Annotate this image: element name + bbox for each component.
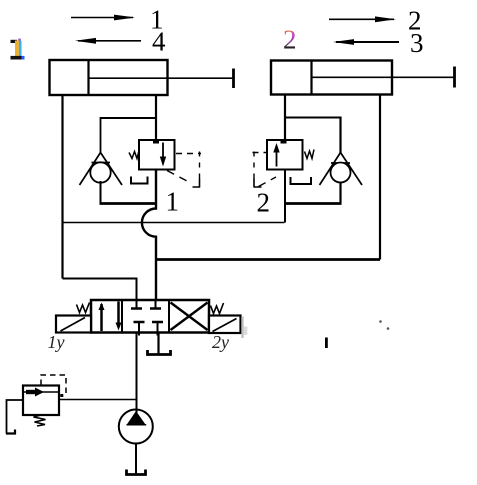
pump <box>119 410 153 444</box>
label 1 colored (cylinder 1 tag) <box>11 39 25 60</box>
tank at relief <box>6 430 15 434</box>
wire check2 outlet <box>339 182 341 204</box>
solenoid right <box>209 316 241 334</box>
valve left position arrows <box>99 302 122 332</box>
directional valve body <box>91 300 209 333</box>
wire cyl1 left port down <box>61 95 63 279</box>
svg-text:3: 3 <box>410 28 424 58</box>
wire throttle2 outlet down <box>284 170 286 223</box>
wire check1 inlet <box>100 117 102 154</box>
relief spring <box>34 415 46 426</box>
svg-text:1: 1 <box>166 187 180 217</box>
wire thick link to cyl2 rod side <box>156 258 380 261</box>
dashed adjuster 2 <box>253 152 277 188</box>
throttle valve 2 <box>267 139 303 170</box>
wire check2 branch top <box>285 117 341 119</box>
spring w1 (throttle 1) <box>129 151 139 159</box>
wire long link line <box>63 222 285 224</box>
wire left down to valve port A <box>63 279 137 301</box>
stray dots <box>379 320 382 323</box>
wire cyl1 right port to throttle 1 <box>155 95 157 140</box>
svg-text:4: 4 <box>152 27 166 57</box>
scan ghost smudge <box>241 317 243 339</box>
wire valve P to pump <box>136 333 138 411</box>
stray tick mark <box>325 338 328 349</box>
spring right (valve) <box>211 303 224 314</box>
valve right position crossed arrows <box>171 303 208 331</box>
wire check2 return <box>284 202 342 205</box>
tank at pump <box>127 470 146 475</box>
arrow 3 (top right) <box>333 39 399 45</box>
wire relief to pump line <box>59 399 137 401</box>
bracket under throttle 1 <box>131 177 148 184</box>
wire check2 inlet <box>339 117 341 154</box>
arrow 4 (return direction, top left) <box>75 38 141 44</box>
spring left (valve) <box>77 303 90 313</box>
check valve V2 <box>320 153 363 186</box>
tank at valve T <box>148 350 171 355</box>
relief outlet to tank <box>7 400 24 434</box>
arrow 2 (top right) <box>329 16 396 22</box>
dashed adjuster 1 <box>167 152 201 188</box>
check valve V1 <box>80 153 123 186</box>
svg-text:1y: 1y <box>48 332 65 352</box>
relief valve <box>23 386 59 416</box>
wire cyl2 right port down <box>379 95 381 260</box>
wire check1 branch top <box>101 117 157 119</box>
svg-text:2: 2 <box>257 188 271 218</box>
wire cyl2 left port down <box>284 95 286 141</box>
wire pump to tank <box>135 444 137 475</box>
svg-text:2y: 2y <box>212 332 229 352</box>
wire throttle1 down with hop <box>142 170 156 301</box>
solenoid left <box>56 316 91 333</box>
throttle valve 1 <box>139 139 175 170</box>
valve centre blocked ports <box>131 300 163 336</box>
arrow 1 (stroke direction, top left) <box>71 15 135 21</box>
cylinder 1 <box>50 60 234 95</box>
cylinder 2 <box>271 61 455 95</box>
svg-text:2: 2 <box>283 25 297 55</box>
relief pilot dashed <box>41 375 66 397</box>
wire check1 return <box>100 202 157 205</box>
bracket under throttle 2 <box>291 177 312 184</box>
wire check1 outlet <box>100 181 102 204</box>
spring w2 (throttle 2) <box>305 150 315 159</box>
wire valve T port <box>157 333 159 355</box>
